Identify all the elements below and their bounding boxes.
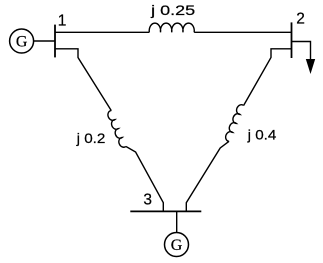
svg-text:G: G — [16, 33, 28, 50]
svg-text:3: 3 — [143, 192, 152, 209]
generator G1 — [10, 29, 34, 53]
svg-text:j 0.4: j 0.4 — [246, 127, 277, 142]
bus 1 — [54, 25, 56, 58]
bus 3 — [130, 210, 201, 212]
load wire at bus 2 — [292, 42, 311, 63]
wire inductor L13 to bus 3 — [126, 146, 163, 211]
wire bus 3 to G3 — [176, 211, 178, 232]
svg-text:G: G — [171, 237, 183, 254]
inductor L12 — [149, 23, 194, 32]
wire inductor L12 to bus 2 — [194, 31, 291, 33]
svg-text:j 0.25: j 0.25 — [150, 3, 195, 18]
bus 2 — [291, 22, 293, 58]
load arrow — [306, 59, 315, 74]
svg-text:2: 2 — [296, 11, 305, 28]
wire inductor L23 to bus 3 — [186, 141, 229, 211]
inductor L23 — [226, 105, 244, 142]
generator G3 — [165, 233, 189, 257]
wire bus2 elbow to line 2-3 — [244, 49, 292, 106]
wire G1 to bus 1 — [34, 40, 55, 42]
svg-text:1: 1 — [58, 12, 67, 29]
wire bus1 elbow to line 1-3 — [55, 49, 111, 111]
inductor L13 — [108, 111, 126, 148]
wire bus1 to inductor L12 — [55, 31, 149, 33]
svg-text:j 0.2: j 0.2 — [75, 131, 105, 146]
